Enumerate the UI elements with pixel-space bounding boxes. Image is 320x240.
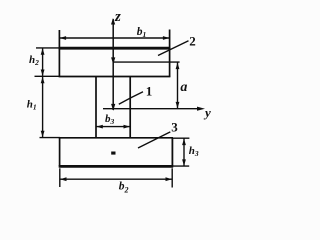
bottom flange plate 3: left edge — [59, 138, 61, 167]
flange-2 centroid line — [113, 61, 179, 63]
b2 left extension line — [59, 168, 61, 187]
web plate 1: left edge — [95, 77, 97, 138]
dimension b3 line — [97, 126, 130, 128]
centroid dash inside plate 3 — [111, 152, 115, 155]
dimension h1 line — [42, 77, 44, 138]
dimension h1 up arrow — [41, 77, 45, 84]
top flange plate 2: left edge + b1 extension line — [58, 30, 60, 77]
dimension h1 down arrow — [41, 131, 45, 138]
leader line for part 3 — [138, 132, 170, 148]
leader line for part 1 — [119, 92, 143, 104]
dimension b1 line — [59, 37, 169, 39]
web plate 1: right edge — [129, 77, 131, 138]
bottom flange plate 3: top edge — [59, 137, 173, 139]
svg-text:3: 3 — [171, 120, 178, 135]
svg-text:z: z — [114, 9, 121, 25]
y axis arrow (right) — [197, 107, 205, 111]
dimension h2 line — [42, 49, 44, 76]
top flange plate 2: top edge (thick) — [59, 47, 171, 50]
dimension b2 right arrow — [166, 177, 173, 181]
h1 bottom extension tick — [40, 137, 61, 139]
h3 bottom extension tick — [172, 165, 189, 167]
h2 top extension tick — [36, 47, 59, 49]
b2 right extension line — [171, 168, 173, 187]
dimension a line — [177, 63, 179, 109]
dimension b3 left arrow — [96, 125, 103, 129]
dimension b2 line — [60, 178, 172, 180]
dimension h3 down arrow — [182, 159, 186, 166]
dimension h3 line — [183, 139, 185, 167]
top flange plate 2: right edge + b1 extension line — [169, 30, 171, 77]
dimension h3 up arrow — [182, 139, 186, 146]
h3 top extension tick — [172, 137, 189, 139]
dimension h2 down arrow — [41, 70, 45, 77]
dimension a down arrow — [176, 102, 180, 109]
h2/h1 shared extension tick (flange bottom) — [35, 75, 60, 77]
dimension h2 up arrow — [41, 48, 45, 55]
dimension b1 right arrow — [163, 36, 170, 40]
leader line for part 2 — [158, 41, 189, 56]
bottom flange plate 3: bottom edge (thick) — [59, 165, 174, 168]
bottom flange plate 3: right edge — [171, 138, 173, 167]
svg-text:1: 1 — [146, 84, 153, 99]
svg-text:a: a — [180, 80, 187, 95]
top flange plate 2: bottom edge — [59, 76, 171, 78]
centerline down arrow at y axis — [111, 104, 115, 111]
dimension b1 left arrow — [60, 36, 67, 40]
centerline mid down arrow at flange-2 centroid line — [111, 57, 115, 64]
dimension b3 right arrow — [124, 125, 131, 129]
dimension a up arrow — [176, 63, 180, 70]
z axis line — [112, 19, 114, 110]
y axis line — [103, 108, 197, 110]
z axis arrow (up) — [111, 18, 115, 25]
dimension b2 left arrow — [60, 177, 67, 181]
svg-text:y: y — [203, 105, 211, 120]
svg-text:2: 2 — [189, 33, 196, 48]
